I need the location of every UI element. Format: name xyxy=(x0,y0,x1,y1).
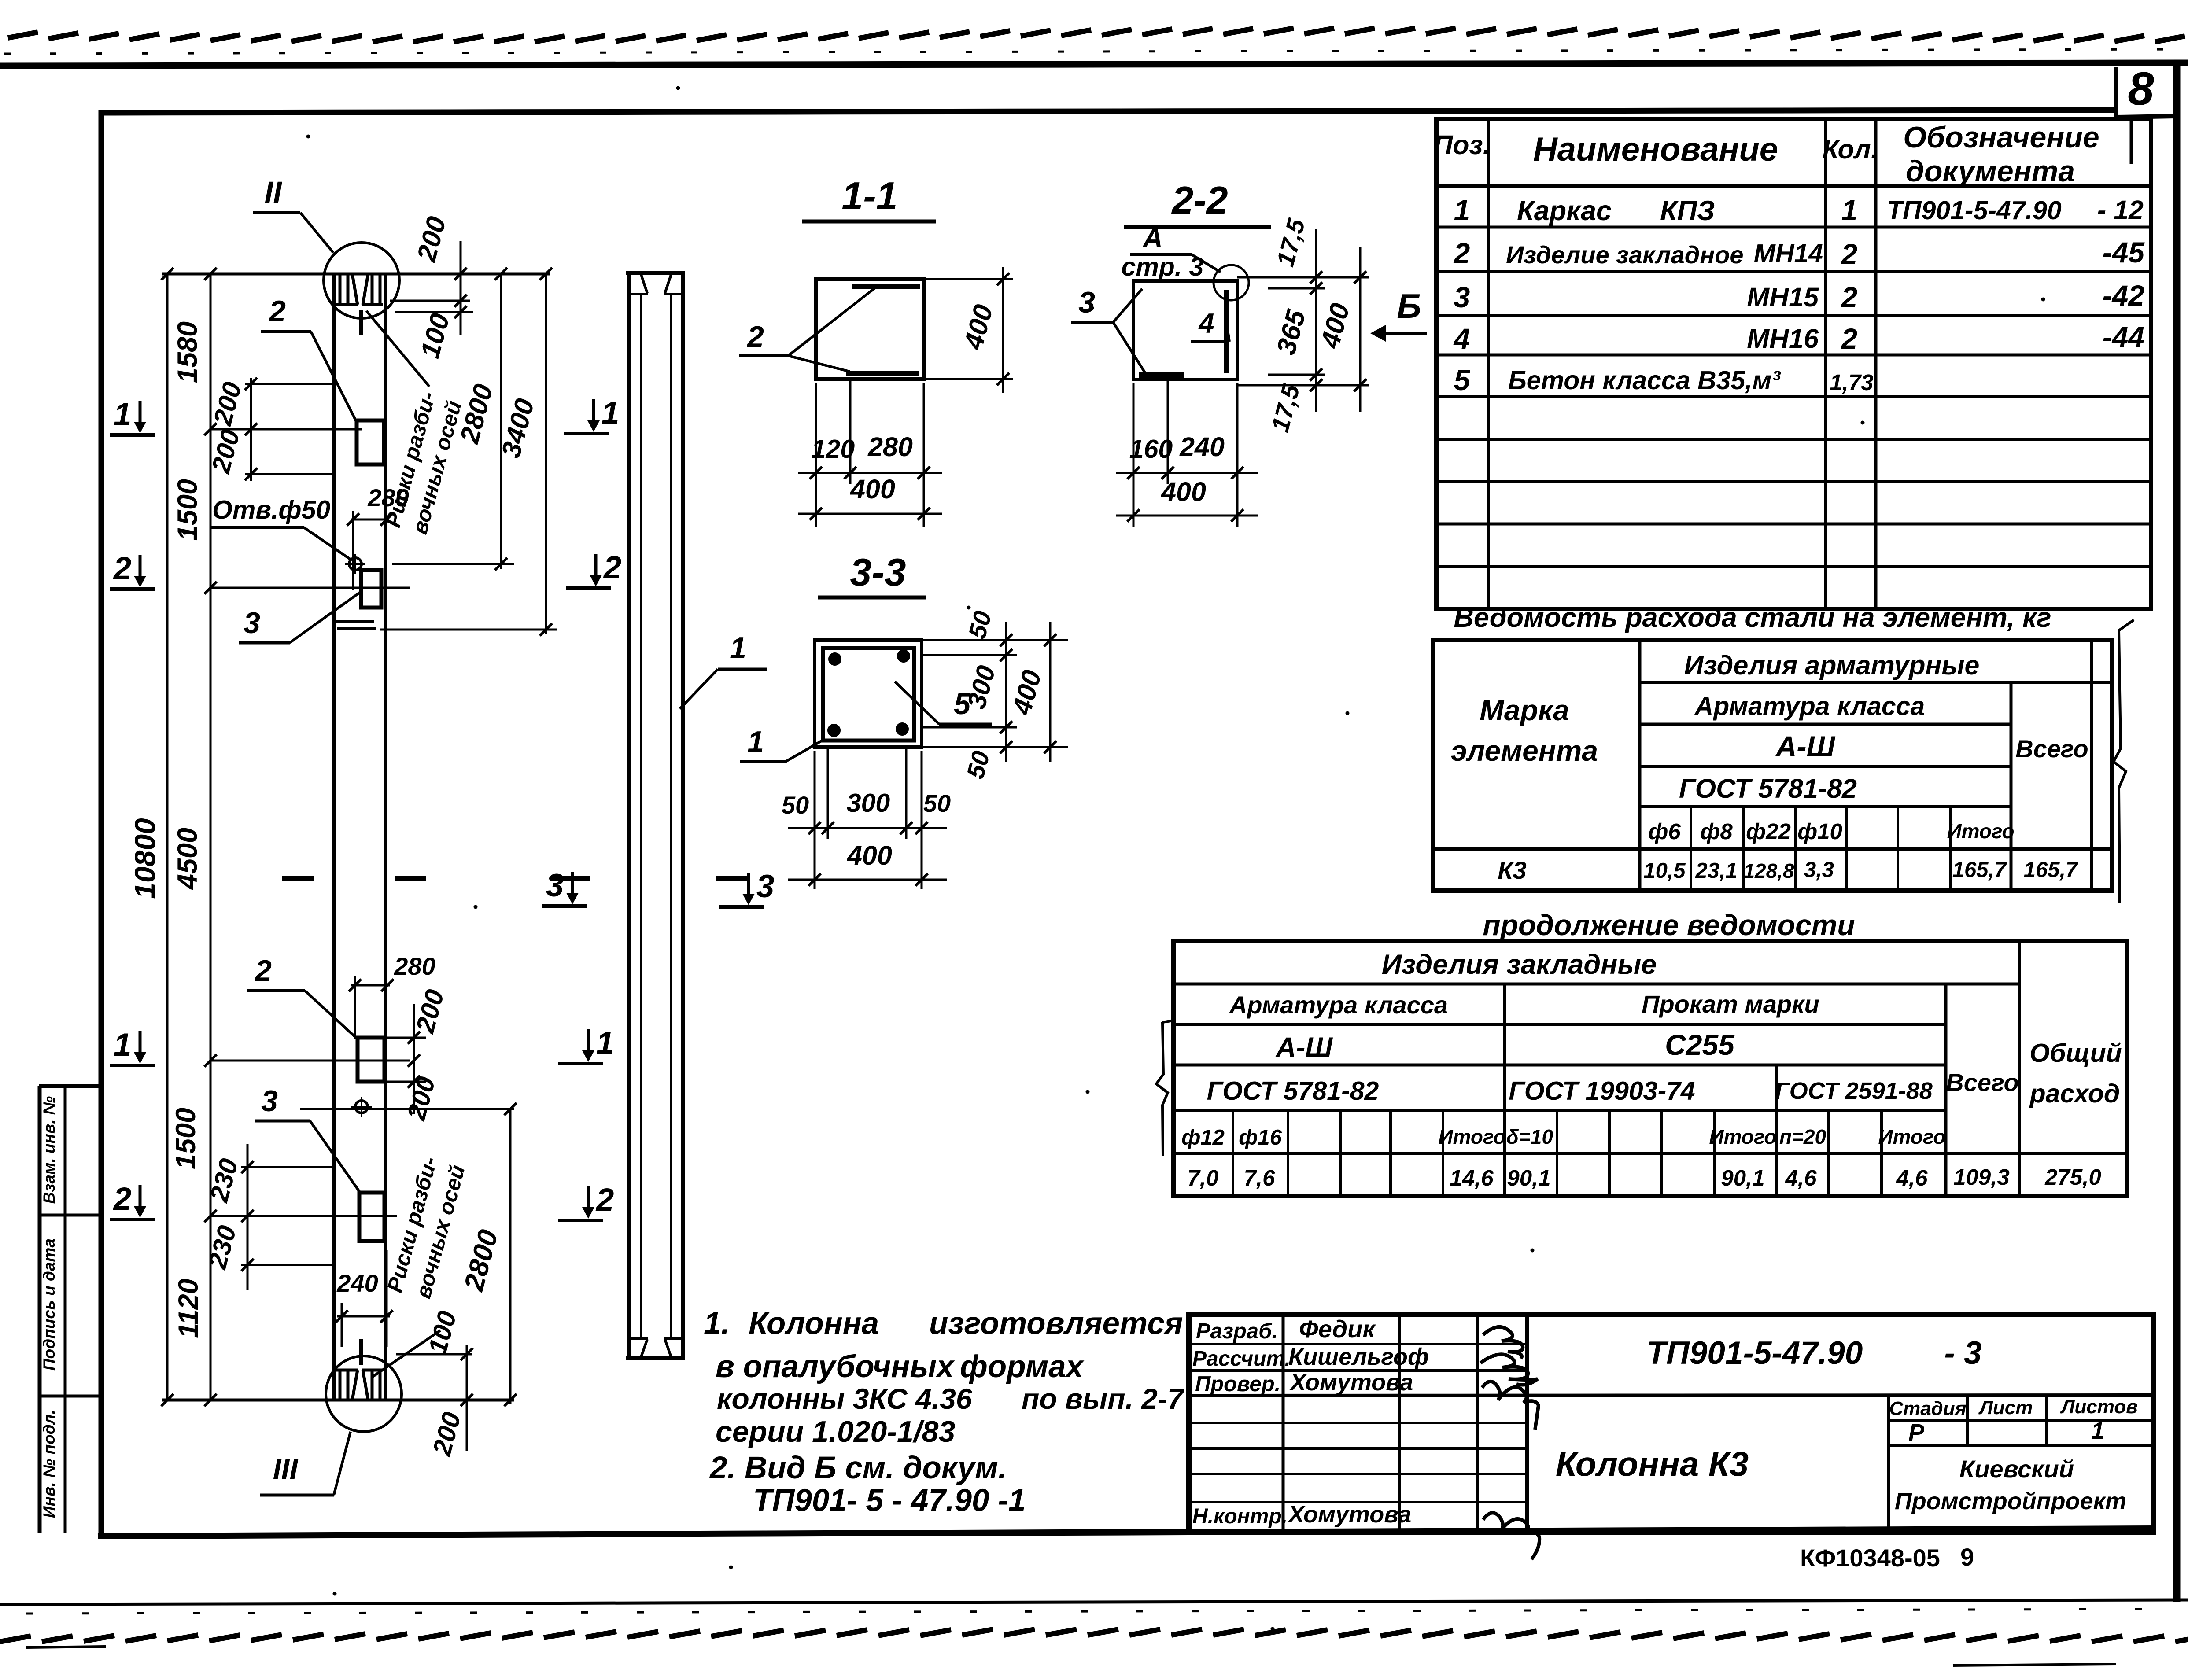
dimension vertical 200/100 top xyxy=(460,241,462,335)
leader riski lower xyxy=(372,1330,440,1377)
svg-text:С255: С255 xyxy=(1665,1028,1735,1061)
svg-text:9: 9 xyxy=(1960,1543,1974,1571)
svg-text:Подпись и дата: Подпись и дата xyxy=(40,1238,58,1371)
svg-text:К3: К3 xyxy=(1498,856,1527,884)
svg-text:КФ10348-05: КФ10348-05 xyxy=(1800,1544,1940,1572)
svg-text:120: 120 xyxy=(812,435,855,464)
axis extension line at lower hole xyxy=(300,1108,514,1110)
svg-text:δ=10: δ=10 xyxy=(1506,1125,1553,1148)
scan bottom speckle xyxy=(26,1609,2184,1614)
svg-text:7,6: 7,6 xyxy=(1244,1165,1276,1190)
section mark 3 left xyxy=(542,904,587,908)
svg-text:Разраб.: Разраб. xyxy=(1196,1319,1278,1343)
middle column outer right edge xyxy=(681,272,685,1359)
middle column inner left line xyxy=(640,294,642,1338)
svg-text:4500: 4500 xyxy=(172,828,203,890)
title block vertical sign/date xyxy=(1476,1314,1479,1533)
svg-text:II: II xyxy=(264,176,282,210)
svg-text:280: 280 xyxy=(867,432,913,462)
section mark 1 upper left xyxy=(110,433,155,437)
continuation row line 3 xyxy=(1173,1064,1946,1067)
embedded plate 2 lower xyxy=(358,1038,384,1082)
svg-text:1-1: 1-1 xyxy=(841,174,897,217)
drawing frame top border xyxy=(100,110,2116,113)
parts table column Naimenovanie xyxy=(1824,119,1827,609)
extension line 3400 bottom xyxy=(380,629,557,631)
svg-text:Бетон класса В35,м³: Бетон класса В35,м³ xyxy=(1508,366,1781,395)
svg-text:-45: -45 xyxy=(2103,236,2145,269)
svg-text:240: 240 xyxy=(336,1269,378,1297)
section mark 2 upper left xyxy=(110,587,155,591)
title block vertical central/stadiya xyxy=(1887,1395,1890,1533)
svg-text:2: 2 xyxy=(268,295,286,328)
left margin cell line 2 xyxy=(39,1395,101,1398)
svg-text:ГОСТ 2591-88: ГОСТ 2591-88 xyxy=(1775,1078,1933,1104)
svg-text:2: 2 xyxy=(603,550,622,586)
section cut line 2-2 upper xyxy=(210,587,410,589)
svg-text:4,6: 4,6 xyxy=(1896,1165,1928,1190)
overall dimension line 10800 xyxy=(166,274,169,1400)
steel table row line 5 xyxy=(1433,847,2112,851)
title block vertical names/sign xyxy=(1398,1314,1401,1533)
section 2-2 square xyxy=(1133,281,1237,379)
svg-text:ТП901- 5 - 47.90 -1: ТП901- 5 - 47.90 -1 xyxy=(753,1483,1026,1518)
svg-text:Изделия закладные: Изделия закладные xyxy=(1382,949,1657,980)
section 2-2 side plate MN15 xyxy=(1224,290,1229,373)
section 2-2 dimension 17.5 365 17.5 xyxy=(1315,229,1317,412)
svg-text:Прокат марки: Прокат марки xyxy=(1642,990,1819,1018)
title block vertical left/central xyxy=(1525,1314,1529,1533)
drawing frame left border xyxy=(99,110,104,1536)
svg-text:2. Вид Б см. докум.: 2. Вид Б см. докум. xyxy=(709,1451,1007,1485)
section cut line 2-2 lower xyxy=(210,1215,397,1217)
scan speckle dots xyxy=(306,135,310,139)
svg-text:серии 1.020-1/83: серии 1.020-1/83 xyxy=(716,1415,955,1448)
middle column top cap xyxy=(626,271,685,275)
continuation row line 4 xyxy=(1173,1109,1946,1112)
svg-text:Взам. инв. №: Взам. инв. № xyxy=(40,1096,58,1204)
parts table row lines xyxy=(1436,226,2151,229)
svg-text:ф8: ф8 xyxy=(1700,819,1733,844)
svg-text:МН15: МН15 xyxy=(1747,282,1819,312)
dimension 230 230 lower xyxy=(247,1144,249,1290)
column elevation top edge line xyxy=(162,273,550,276)
section 2-2 right extensions xyxy=(1237,276,1369,279)
svg-text:109,3: 109,3 xyxy=(1953,1164,2010,1190)
section 2-2 bottom plate xyxy=(1139,372,1184,378)
section mark 2 lower left xyxy=(110,1218,155,1221)
continuation col Vsego left xyxy=(1944,984,1948,1196)
svg-text:3: 3 xyxy=(756,869,775,904)
svg-text:Провер.: Провер. xyxy=(1195,1372,1280,1396)
svg-text:1: 1 xyxy=(747,725,764,759)
column top socket teeth xyxy=(339,274,342,305)
scan top speckle line xyxy=(4,49,2184,54)
svg-text:Промстройпроект: Промстройпроект xyxy=(1895,1488,2126,1514)
section 2-2 bottom extensions xyxy=(1133,383,1135,527)
svg-text:90,1: 90,1 xyxy=(1507,1165,1550,1190)
scan top solid band xyxy=(0,63,2188,66)
section cut line 1-1 lower xyxy=(210,1060,410,1062)
svg-text:2: 2 xyxy=(254,954,272,987)
drawing frame right border xyxy=(2173,64,2181,1602)
left margin block outer xyxy=(38,1086,42,1533)
middle column inner right line xyxy=(670,294,672,1338)
svg-text:3: 3 xyxy=(1078,286,1095,319)
svg-text:3: 3 xyxy=(1454,281,1470,313)
svg-text:Ведомость расхода стали на: Ведомость расхода стали на элемент, кг xyxy=(1454,602,2051,633)
svg-text:КПЗ: КПЗ xyxy=(1660,195,1715,226)
svg-text:п=20: п=20 xyxy=(1779,1125,1826,1148)
dimension line 2800 lower xyxy=(509,1109,512,1404)
continuation col Armatura/Prokat divider xyxy=(1503,984,1506,1196)
svg-text:Н.контр.: Н.контр. xyxy=(1192,1505,1288,1528)
section mark 1 lower right xyxy=(558,1062,603,1065)
svg-text:Хомутова: Хомутова xyxy=(1287,1501,1411,1528)
sheet number box xyxy=(2114,67,2118,117)
detail circle II xyxy=(324,243,399,318)
svg-text:Кол.: Кол. xyxy=(1822,134,1878,164)
section 3-3 dimension 50 300 50 bottom xyxy=(788,827,947,829)
svg-text:3,3: 3,3 xyxy=(1804,858,1834,882)
section 2-2 dimension 400 right xyxy=(1359,247,1362,412)
drawing frame bottom border xyxy=(98,1529,2156,1536)
svg-text:Хомутова: Хомутова xyxy=(1289,1369,1413,1396)
dimension vertical 200 200 lower xyxy=(413,1004,415,1114)
svg-text:Федик: Федик xyxy=(1299,1315,1376,1343)
middle column bottom cap xyxy=(626,1356,685,1360)
svg-text:3: 3 xyxy=(261,1084,278,1118)
middle column outer left edge xyxy=(627,272,631,1359)
svg-text:3: 3 xyxy=(244,606,260,640)
svg-text:1: 1 xyxy=(1841,194,1858,226)
section 3-3 dimension 400 bottom xyxy=(788,879,947,881)
steel table col right inner xyxy=(2090,640,2093,891)
section 1-1 dimension 120 280 xyxy=(798,472,942,474)
svg-text:275,0: 275,0 xyxy=(2044,1164,2101,1190)
section 1-1 dimension 400 vertical xyxy=(1002,267,1004,393)
svg-text:400: 400 xyxy=(846,840,892,870)
svg-text:Итого: Итого xyxy=(1439,1125,1506,1148)
svg-text:МН14: МН14 xyxy=(1754,239,1823,268)
section 2-2 dimension 400 bottom xyxy=(1116,515,1258,517)
svg-text:ф12: ф12 xyxy=(1181,1126,1225,1149)
svg-text:3-3: 3-3 xyxy=(850,550,906,594)
hole Otv f50 lower xyxy=(355,1101,368,1113)
title block left rows xyxy=(1189,1343,1527,1345)
svg-text:Всего: Всего xyxy=(2015,735,2088,763)
steel table col Marka right edge xyxy=(1638,640,1642,891)
svg-text:90,1: 90,1 xyxy=(1721,1165,1764,1190)
section 3-3 dimension 50 300 50 right xyxy=(1005,622,1007,762)
svg-text:1500: 1500 xyxy=(172,479,203,541)
title block vertical labels/names xyxy=(1282,1314,1285,1533)
svg-text:-44: -44 xyxy=(2103,321,2144,353)
embedded plate 3 upper xyxy=(361,570,381,608)
svg-text:ТП901-5-47.90: ТП901-5-47.90 xyxy=(1647,1335,1863,1371)
continuation row line 2 xyxy=(1173,1023,1946,1026)
svg-text:5: 5 xyxy=(1454,364,1471,396)
svg-text:ф10: ф10 xyxy=(1797,819,1842,844)
dimension line 2800 upper xyxy=(500,274,502,569)
svg-text:Инв. № подл.: Инв. № подл. xyxy=(40,1410,58,1518)
svg-text:по вып. 2-7: по вып. 2-7 xyxy=(1022,1382,1185,1415)
svg-text:160: 160 xyxy=(1129,435,1173,464)
svg-text:Изделие закладное: Изделие закладное xyxy=(1506,241,1744,269)
svg-text:1: 1 xyxy=(2091,1418,2104,1444)
svg-text:Итого: Итого xyxy=(1947,820,2015,843)
svg-text:4: 4 xyxy=(1453,322,1470,355)
column elevation left edge xyxy=(332,274,336,1400)
title block outer frame xyxy=(1189,1314,2153,1533)
axis risk stub above bottom socket xyxy=(359,1339,363,1365)
svg-text:элемента: элемента xyxy=(1451,734,1598,767)
svg-text:1120: 1120 xyxy=(173,1278,204,1338)
svg-text:10,5: 10,5 xyxy=(1643,859,1686,883)
continuation diameter columns middle group xyxy=(1556,1110,1558,1196)
svg-text:в опалубочных: в опалубочных xyxy=(716,1349,955,1384)
title block signature squiggle 3 xyxy=(1482,1382,1539,1430)
dimension 100 lower xyxy=(396,1353,472,1356)
svg-text:2: 2 xyxy=(113,551,132,586)
continuation col Obshchiy left xyxy=(2018,941,2021,1196)
section mark 1 upper right xyxy=(564,432,609,435)
svg-text:А-Ш: А-Ш xyxy=(1775,730,1836,763)
svg-text:ГОСТ 19903-74: ГОСТ 19903-74 xyxy=(1509,1076,1695,1105)
risk line 200 upper xyxy=(390,300,470,302)
svg-text:Поз.: Поз. xyxy=(1433,130,1490,160)
axis risk stub below socket xyxy=(359,310,363,335)
svg-text:2-2: 2-2 xyxy=(1171,178,1228,222)
svg-text:1.: 1. xyxy=(704,1306,730,1341)
svg-text:стр. 3: стр. 3 xyxy=(1122,252,1204,281)
svg-text:Колонна К3: Колонна К3 xyxy=(1556,1444,1749,1483)
svg-text:Изделия арматурные: Изделия арматурные xyxy=(1684,650,1980,680)
svg-text:23,1: 23,1 xyxy=(1695,859,1737,883)
svg-text:Общий: Общий xyxy=(2029,1039,2122,1068)
section mark 2 upper right xyxy=(566,586,611,590)
svg-text:Отв.ф50: Отв.ф50 xyxy=(212,495,330,524)
section 1-1 dimension 400 bottom xyxy=(798,513,942,515)
svg-text:документа: документа xyxy=(1906,155,2075,188)
svg-text:МН16: МН16 xyxy=(1747,324,1819,354)
section 1-1 bottom plate MN14 xyxy=(846,371,919,376)
svg-text:Стадия: Стадия xyxy=(1889,1398,1966,1419)
svg-text:7,0: 7,0 xyxy=(1188,1165,1219,1190)
continuation row line 1 xyxy=(1173,983,2019,986)
svg-text:128,8: 128,8 xyxy=(1743,859,1794,882)
dimension line 3400 xyxy=(545,274,547,634)
parts table outer frame xyxy=(1436,119,2151,609)
svg-text:ф6: ф6 xyxy=(1648,819,1681,844)
svg-text:2: 2 xyxy=(746,320,764,354)
section 1-1 top plate MN14 xyxy=(852,284,920,289)
title block stadiya header line xyxy=(1889,1419,2153,1422)
steel table row line 2 xyxy=(1640,723,2011,726)
svg-text:1500: 1500 xyxy=(170,1108,201,1169)
svg-text:Итого: Итого xyxy=(1878,1125,1946,1148)
embedded plate 2 upper xyxy=(357,420,384,464)
svg-text:Листов: Листов xyxy=(2060,1396,2138,1418)
svg-text:165,7: 165,7 xyxy=(2024,858,2079,882)
svg-text:8: 8 xyxy=(2128,62,2154,115)
svg-text:- 3: - 3 xyxy=(1944,1335,1981,1371)
svg-text:2: 2 xyxy=(1841,322,1858,355)
svg-text:1580: 1580 xyxy=(172,321,203,383)
middle column axis dash left xyxy=(550,876,590,881)
svg-text:Колонна: Колонна xyxy=(749,1306,879,1341)
svg-text:165,7: 165,7 xyxy=(1952,858,2007,882)
svg-text:1: 1 xyxy=(114,1027,132,1063)
risk line 100 upper xyxy=(395,311,473,313)
svg-text:Б: Б xyxy=(1397,287,1421,325)
continuation diameter columns left group xyxy=(1232,1110,1234,1196)
svg-text:2: 2 xyxy=(1841,281,1858,313)
svg-text:Арматура класса: Арматура класса xyxy=(1694,692,1925,721)
svg-text:2: 2 xyxy=(1841,238,1858,270)
axis dash left of column xyxy=(282,876,314,881)
plate 2 lower right extensions xyxy=(384,1037,426,1039)
plate 2 side dimension 200 200 xyxy=(250,378,252,481)
svg-text:1: 1 xyxy=(114,397,132,432)
svg-text:1,73: 1,73 xyxy=(1830,370,1873,395)
svg-text:А: А xyxy=(1142,223,1163,254)
left margin divider vertical xyxy=(64,1086,67,1533)
svg-text:4: 4 xyxy=(1198,308,1214,339)
svg-text:ГОСТ 5781-82: ГОСТ 5781-82 xyxy=(1679,774,1857,803)
svg-text:280: 280 xyxy=(394,952,435,980)
section 3-3 right extensions xyxy=(922,639,1068,641)
svg-text:300: 300 xyxy=(847,788,890,818)
left margin cell line 1 xyxy=(39,1214,101,1217)
svg-text:Лист: Лист xyxy=(1978,1397,2033,1418)
svg-text:50: 50 xyxy=(923,789,951,817)
svg-text:Киевский: Киевский xyxy=(1959,1455,2074,1483)
svg-text:10800: 10800 xyxy=(129,818,161,899)
svg-text:колонны 3КС 4.36: колонны 3КС 4.36 xyxy=(717,1382,973,1415)
svg-text:Р: Р xyxy=(1908,1419,1925,1446)
continuation col GOST divider xyxy=(1775,1065,1778,1196)
title block signature squiggle 2 xyxy=(1480,1354,1538,1385)
svg-text:14,6: 14,6 xyxy=(1450,1165,1494,1190)
scan bottom left stray mark xyxy=(26,1647,106,1647)
section 1-1 right extension lines xyxy=(924,278,1013,280)
section mark 2 lower right xyxy=(558,1219,603,1222)
section 3-3 outer square xyxy=(815,640,922,747)
section 2-2 corner detail circle xyxy=(1214,265,1249,300)
steel table right break line xyxy=(2114,630,2126,903)
svg-text:изготовляется: изготовляется xyxy=(929,1306,1183,1341)
continuation left break line xyxy=(1156,1022,1168,1156)
svg-text:- 12: - 12 xyxy=(2097,195,2144,225)
title block signature squiggle 4 xyxy=(1483,1513,1539,1559)
steel table row line 3 xyxy=(1640,765,2011,768)
parts table column Poz xyxy=(1487,119,1490,609)
svg-text:400: 400 xyxy=(849,474,895,504)
dimension 200 bottom xyxy=(466,1400,468,1451)
section 3-3 dimension 400 right xyxy=(1049,622,1052,762)
column elevation bottom edge line xyxy=(162,1399,514,1402)
column bottom socket teeth xyxy=(339,1370,342,1400)
hole Otv f50 upper xyxy=(349,558,362,570)
svg-text:Рассчит.: Рассчит. xyxy=(1192,1347,1291,1371)
svg-text:1: 1 xyxy=(1454,194,1470,226)
svg-text:ТП901-5-47.90: ТП901-5-47.90 xyxy=(1887,196,2062,225)
svg-text:ГОСТ 5781-82: ГОСТ 5781-82 xyxy=(1207,1076,1379,1105)
svg-text:формах: формах xyxy=(960,1349,1085,1384)
section mark 3 right xyxy=(719,905,764,909)
svg-text:240: 240 xyxy=(1179,432,1225,462)
scan bottom right stray line xyxy=(1953,1664,2116,1665)
scan top rope band xyxy=(8,28,2185,42)
title block stadiya value line xyxy=(1889,1444,2153,1447)
svg-text:3: 3 xyxy=(546,868,564,903)
svg-text:Обозначение: Обозначение xyxy=(1903,121,2099,154)
title block stadiya verticals xyxy=(1966,1395,1969,1445)
section 3-3 stirrup square xyxy=(823,648,914,741)
svg-text:Марка: Марка xyxy=(1480,694,1569,726)
axis risk marks at 3400 level xyxy=(335,620,374,623)
svg-text:1: 1 xyxy=(596,1025,614,1061)
scan bottom thin line xyxy=(0,1600,2188,1604)
svg-text:2: 2 xyxy=(1453,237,1470,269)
steel table row line 4 xyxy=(1640,805,2011,808)
svg-text:400: 400 xyxy=(1160,477,1206,507)
svg-text:Арматура класса: Арматура класса xyxy=(1229,991,1448,1019)
svg-text:Каркас: Каркас xyxy=(1517,195,1612,226)
svg-text:продолжение ведомости: продолжение ведомости xyxy=(1483,909,1855,941)
section 1-1 square xyxy=(816,279,924,379)
parts table column Kol xyxy=(1874,119,1878,609)
detail circle III xyxy=(326,1356,402,1432)
steel table diameter column lines xyxy=(1690,807,1692,891)
title block horizontal under TP row xyxy=(1189,1395,2153,1396)
section 3-3 bottom extensions xyxy=(814,751,816,889)
section 3-3 rebar dots xyxy=(829,653,841,665)
segment dimension line xyxy=(210,274,212,1400)
svg-text:А-Ш: А-Ш xyxy=(1275,1032,1333,1063)
svg-text:2: 2 xyxy=(595,1182,614,1218)
svg-text:ф16: ф16 xyxy=(1239,1126,1282,1149)
svg-text:1: 1 xyxy=(730,631,746,665)
steel table outer frame xyxy=(1433,640,2112,891)
continuation diameter columns right group xyxy=(1827,1110,1830,1196)
svg-text:-42: -42 xyxy=(2103,279,2145,312)
steel table col Vsego left edge xyxy=(2010,682,2013,891)
column elevation right edge xyxy=(384,274,387,1400)
svg-text:расход: расход xyxy=(2029,1079,2120,1108)
svg-text:Всего: Всего xyxy=(1946,1068,2018,1096)
leader riski upper xyxy=(366,311,429,387)
continuation table outer frame xyxy=(1173,941,2127,1196)
embedded plate 3 lower xyxy=(359,1193,384,1241)
svg-text:III: III xyxy=(273,1452,299,1486)
section mark 1 lower left xyxy=(110,1064,155,1067)
section cut line 1-1 upper xyxy=(210,428,362,431)
svg-text:4,6: 4,6 xyxy=(1785,1165,1817,1190)
svg-text:50: 50 xyxy=(782,791,809,819)
scan bottom rope band xyxy=(0,1629,2188,1642)
svg-text:2: 2 xyxy=(113,1181,132,1217)
extension line 2800 bottom xyxy=(392,563,514,565)
svg-text:Итого: Итого xyxy=(1709,1125,1777,1148)
svg-text:1: 1 xyxy=(601,395,620,431)
parts table header line xyxy=(1436,184,2151,188)
steel table row line 1 xyxy=(1640,681,2112,684)
continuation row line 5 xyxy=(1173,1152,2127,1155)
svg-text:Кишельгоф: Кишельгоф xyxy=(1288,1344,1429,1370)
stray vertical stub below sheet box xyxy=(2130,117,2133,164)
